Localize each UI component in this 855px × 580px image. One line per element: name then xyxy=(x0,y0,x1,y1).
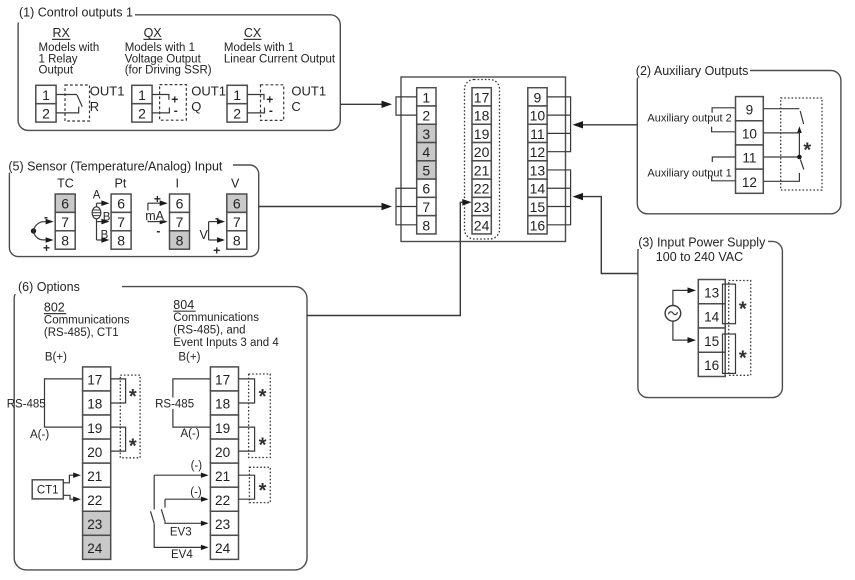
QX output wires xyxy=(152,95,169,113)
TC terminal 7 xyxy=(55,212,75,230)
svg-text:B(+): B(+) xyxy=(178,352,200,364)
802 jumper 19-20 xyxy=(111,427,126,451)
svg-text:-: - xyxy=(156,224,160,238)
svg-text:Auxiliary output 1: Auxiliary output 1 xyxy=(647,167,731,179)
svg-text:A(-): A(-) xyxy=(30,429,49,441)
svg-text:7: 7 xyxy=(422,199,430,215)
svg-text:8: 8 xyxy=(176,233,184,249)
802 jumper 17-18 xyxy=(111,379,126,403)
svg-text:21: 21 xyxy=(474,162,490,178)
svg-text:(RS-485), CT1: (RS-485), CT1 xyxy=(44,327,119,339)
power jumper bar 13-14 xyxy=(723,284,736,324)
804 terminal 20 xyxy=(210,439,238,463)
svg-text:19: 19 xyxy=(215,421,230,436)
CX dashed load box xyxy=(261,85,284,121)
RX OUT1 R label xyxy=(90,84,125,115)
svg-text:OUT1: OUT1 xyxy=(191,84,226,99)
svg-text:18: 18 xyxy=(87,397,102,412)
804 jumper 19-20 xyxy=(239,427,255,451)
svg-text:*: * xyxy=(739,348,747,370)
svg-text:20: 20 xyxy=(215,445,231,460)
I polarity and mA labels xyxy=(145,192,165,238)
svg-text:(-): (-) xyxy=(190,486,202,498)
I wiring bracket xyxy=(148,200,168,224)
aux terminal 10 xyxy=(736,121,764,145)
terminal 14 xyxy=(528,179,547,197)
svg-text:+: + xyxy=(154,192,161,206)
section 5 box xyxy=(9,165,258,257)
wire bracket terminals 9-12 (auxiliary outputs feed) xyxy=(547,97,571,152)
terminal 15 xyxy=(528,197,547,215)
terminal 4 (shaded) xyxy=(417,143,436,161)
svg-text:17: 17 xyxy=(215,373,230,388)
svg-text:14: 14 xyxy=(530,181,546,197)
svg-text:C: C xyxy=(291,99,300,114)
Pt terminal 6 xyxy=(111,194,131,212)
Pt terminal 7 xyxy=(111,212,131,230)
terminal 20 xyxy=(472,143,491,161)
aux dashed terminator box xyxy=(781,98,822,190)
804 terminal 21 xyxy=(210,463,238,487)
svg-text:22: 22 xyxy=(474,181,490,197)
svg-text:8: 8 xyxy=(233,233,241,249)
dashed option-terminal outline (17-24) xyxy=(465,80,500,240)
RX description xyxy=(39,42,100,77)
terminal 10 xyxy=(528,106,547,124)
CX polarity labels xyxy=(266,92,273,117)
802 terminal 19 xyxy=(83,415,111,439)
svg-text:QX: QX xyxy=(144,26,163,40)
svg-text:20: 20 xyxy=(87,445,103,460)
svg-text:18: 18 xyxy=(215,397,230,412)
svg-text:(5) Sensor (Temperature/Analog: (5) Sensor (Temperature/Analog) Input xyxy=(8,160,223,174)
svg-text:2: 2 xyxy=(422,108,430,124)
svg-text:6: 6 xyxy=(233,196,241,212)
svg-text:RX: RX xyxy=(53,26,71,40)
svg-text:20: 20 xyxy=(474,144,490,160)
svg-text:19: 19 xyxy=(474,126,490,142)
svg-text:1: 1 xyxy=(42,87,50,103)
svg-text:(3) Input Power Supply: (3) Input Power Supply xyxy=(638,236,766,250)
terminal 1 xyxy=(417,88,436,106)
Pt terminal 8 xyxy=(111,231,131,249)
power wire to 13 xyxy=(673,287,696,305)
804 RS-485 label xyxy=(154,398,194,411)
svg-text:Linear Current Output: Linear Current Output xyxy=(224,53,336,65)
svg-text:Event Inputs 3 and 4: Event Inputs 3 and 4 xyxy=(173,337,279,349)
804 jumper 17-18 xyxy=(239,379,255,403)
804 terminal 24 xyxy=(210,535,238,559)
svg-text:6: 6 xyxy=(61,196,69,212)
svg-text:1: 1 xyxy=(233,87,241,103)
svg-text:6: 6 xyxy=(117,196,125,212)
svg-text:7: 7 xyxy=(176,214,184,230)
svg-text:7: 7 xyxy=(61,214,69,230)
svg-text:CT1: CT1 xyxy=(37,484,59,496)
QX heading xyxy=(144,26,163,40)
svg-text:CX: CX xyxy=(244,26,262,40)
TC terminal 6 (shaded) xyxy=(55,194,75,212)
terminal 9 xyxy=(528,88,547,106)
svg-text:23: 23 xyxy=(474,199,490,215)
svg-text:I: I xyxy=(176,177,179,191)
svg-text:24: 24 xyxy=(474,217,490,233)
terminal 13 xyxy=(528,161,547,179)
V terminal 7 xyxy=(227,212,247,230)
terminal 12 xyxy=(528,143,547,161)
Pt wiring bus xyxy=(97,200,110,242)
804 terminal 19 xyxy=(210,415,238,439)
terminal 3 (shaded) xyxy=(417,124,436,142)
svg-text:*: * xyxy=(129,436,137,458)
svg-text:Models with 1: Models with 1 xyxy=(224,42,294,54)
svg-text:15: 15 xyxy=(704,334,719,349)
CX output wires xyxy=(247,95,264,113)
CX OUT1 C label xyxy=(291,84,326,115)
terminal 5 (shaded) xyxy=(417,161,436,179)
svg-text:12: 12 xyxy=(530,144,546,160)
arrow section5 to terminals 6-8 xyxy=(259,203,392,210)
svg-text:13: 13 xyxy=(530,162,546,178)
svg-text:16: 16 xyxy=(704,358,719,373)
svg-text:4: 4 xyxy=(422,144,430,160)
EV4 switch and wire into 24 xyxy=(151,475,209,550)
svg-text:8: 8 xyxy=(61,233,69,249)
svg-text:24: 24 xyxy=(215,541,231,556)
svg-text:EV3: EV3 xyxy=(170,526,192,538)
svg-text:21: 21 xyxy=(215,469,230,484)
svg-text:24: 24 xyxy=(87,541,103,556)
section 2 box xyxy=(637,71,841,214)
RX terminal 1 xyxy=(36,85,56,103)
aux terminal 12 xyxy=(736,169,764,193)
svg-text:B: B xyxy=(101,229,109,241)
Pt lead labels A B B xyxy=(93,190,111,242)
802 heading xyxy=(44,300,66,314)
804 dashed terminator box 17-20 xyxy=(249,374,271,458)
svg-text:+: + xyxy=(43,241,50,255)
svg-text:(RS-485), and: (RS-485), and xyxy=(173,325,245,337)
804 terminal 18 xyxy=(210,391,238,415)
CT1 box xyxy=(32,480,63,499)
svg-text:B(+): B(+) xyxy=(45,352,67,364)
common link 10-11 with junction dot xyxy=(763,133,801,159)
svg-text:1: 1 xyxy=(422,89,430,105)
terminal 21 xyxy=(472,161,491,179)
svg-text:R: R xyxy=(90,99,99,114)
arrow section2 to terminals 9-12 xyxy=(573,121,638,128)
svg-text:EV4: EV4 xyxy=(171,549,193,561)
power terminal 14 xyxy=(698,304,725,328)
svg-text:9: 9 xyxy=(746,102,754,117)
svg-text:*: * xyxy=(739,298,747,320)
V wiring bracket xyxy=(209,219,225,243)
804 wire into 21 xyxy=(154,473,208,478)
svg-text:22: 22 xyxy=(87,493,102,508)
connector options to terminal 23 xyxy=(307,199,472,316)
svg-text:17: 17 xyxy=(87,373,102,388)
svg-text:7: 7 xyxy=(233,214,241,230)
power terminal 13 xyxy=(698,280,725,304)
CT1 wire to 22 xyxy=(63,495,81,502)
power wire to 15 xyxy=(673,321,696,343)
I terminal 6 xyxy=(170,194,190,212)
QX terminal 2 xyxy=(132,104,152,122)
svg-text:802: 802 xyxy=(44,300,65,314)
svg-text:Communications: Communications xyxy=(44,315,130,327)
svg-text:18: 18 xyxy=(474,108,490,124)
RX terminal 2 xyxy=(36,104,56,122)
802 terminal 22 xyxy=(83,487,111,511)
svg-text:OUT1: OUT1 xyxy=(291,84,326,99)
svg-text:Models with 1: Models with 1 xyxy=(125,42,195,54)
svg-text:16: 16 xyxy=(530,217,546,233)
arrow section1 to terminals 1-2 xyxy=(340,101,392,108)
I terminal 8 (shaded) xyxy=(170,231,190,249)
svg-text:1: 1 xyxy=(138,87,146,103)
svg-text:-: - xyxy=(269,103,273,117)
svg-text:A(-): A(-) xyxy=(181,428,200,440)
power terminal 16 xyxy=(698,352,725,376)
802 terminal 20 xyxy=(83,439,111,463)
wire bracket terminals 1-2 (control output feed) xyxy=(396,97,417,115)
terminal 17 xyxy=(472,88,491,106)
power dashed terminator box xyxy=(729,281,751,376)
svg-text:12: 12 xyxy=(742,175,757,190)
wire bracket terminals 13-16 (power feed) xyxy=(547,170,571,225)
relay contact 11-12 xyxy=(763,160,804,182)
802 terminal 23 (shaded) xyxy=(83,511,111,535)
aux terminal 9 xyxy=(736,97,764,121)
804 wire into 22 xyxy=(165,497,209,502)
804 description xyxy=(173,312,279,349)
svg-text:Auxiliary output 2: Auxiliary output 2 xyxy=(647,112,731,124)
svg-text:2: 2 xyxy=(233,105,241,121)
svg-text:21: 21 xyxy=(87,469,102,484)
QX polarity labels xyxy=(171,92,178,117)
power jumper bar 15-16 xyxy=(723,334,736,373)
svg-text:+: + xyxy=(213,243,220,257)
svg-text:11: 11 xyxy=(530,126,545,142)
802 terminal 18 xyxy=(83,391,111,415)
802 description xyxy=(44,315,130,339)
804 dashed terminator box 21-22 xyxy=(249,467,270,502)
svg-text:804: 804 xyxy=(173,298,194,312)
svg-text:6: 6 xyxy=(422,181,430,197)
I terminal 7 xyxy=(170,212,190,230)
svg-text:mA: mA xyxy=(145,209,164,223)
wire bracket terminals 6-8 (sensor input feed) xyxy=(396,188,417,225)
svg-text:RS-485: RS-485 xyxy=(7,399,46,411)
804 jumper 21-22 xyxy=(239,475,255,499)
804 terminal 22 xyxy=(210,487,238,511)
svg-text:10: 10 xyxy=(742,127,758,142)
svg-text:6: 6 xyxy=(176,196,184,212)
svg-text:100 to 240 VAC: 100 to 240 VAC xyxy=(656,250,743,264)
svg-text:-: - xyxy=(174,103,178,117)
RX dashed load box xyxy=(65,85,90,121)
svg-text:Pt: Pt xyxy=(114,177,126,191)
svg-text:11: 11 xyxy=(742,151,756,166)
804 terminal 23 xyxy=(210,511,238,535)
QX OUT1 Q label xyxy=(191,84,226,115)
svg-text:1 Relay: 1 Relay xyxy=(39,53,78,65)
svg-text:(1) Control outputs 1: (1) Control outputs 1 xyxy=(19,6,133,20)
svg-text:(for Driving SSR): (for Driving SSR) xyxy=(125,65,212,77)
terminal 11 xyxy=(528,124,547,142)
svg-text:-: - xyxy=(44,210,48,224)
CX heading xyxy=(244,26,262,40)
section 1 box xyxy=(18,15,340,131)
svg-text:23: 23 xyxy=(215,517,230,532)
svg-text:10: 10 xyxy=(530,108,546,124)
svg-text:19: 19 xyxy=(87,421,102,436)
svg-text:8: 8 xyxy=(117,233,125,249)
QX description xyxy=(125,42,212,77)
V terminal 6 (shaded) xyxy=(227,194,247,212)
svg-text:2: 2 xyxy=(42,105,50,121)
svg-text:TC: TC xyxy=(57,177,74,191)
section 3 box xyxy=(638,241,783,397)
svg-text:A: A xyxy=(93,190,101,202)
terminal 7 xyxy=(417,197,436,215)
terminal 19 xyxy=(472,124,491,142)
svg-text:Models with: Models with xyxy=(39,42,100,54)
terminal 23 xyxy=(472,197,491,215)
svg-text:Output: Output xyxy=(39,65,74,77)
CX terminal 1 xyxy=(227,85,247,103)
802 terminal 17 xyxy=(83,367,111,391)
802 dashed terminator box xyxy=(120,375,140,458)
aux output 1 bracket wires xyxy=(712,157,736,181)
V polarity and V labels xyxy=(200,211,221,258)
connector section3 to terminals 13-16 xyxy=(573,193,638,274)
terminal 6 xyxy=(417,179,436,197)
TC thermocouple junction xyxy=(31,219,54,243)
802 terminal 21 xyxy=(83,463,111,487)
svg-text:V: V xyxy=(200,228,209,242)
804 heading xyxy=(173,298,195,312)
svg-text:Voltage Output: Voltage Output xyxy=(125,53,202,65)
svg-text:2: 2 xyxy=(138,105,146,121)
svg-text:8: 8 xyxy=(422,217,430,233)
AC source symbol xyxy=(665,306,681,322)
802 terminal 24 (shaded) xyxy=(83,535,111,559)
svg-text:V: V xyxy=(231,177,240,191)
RX heading xyxy=(52,26,71,40)
QX terminal 1 xyxy=(132,85,152,103)
power terminal 15 xyxy=(698,328,725,352)
CX description xyxy=(224,42,336,65)
804 RS-485 bracket wire xyxy=(173,379,211,427)
svg-text:13: 13 xyxy=(704,285,719,300)
svg-text:14: 14 xyxy=(704,310,720,325)
terminal 2 xyxy=(417,106,436,124)
svg-text:-: - xyxy=(215,211,219,225)
QX dashed load box xyxy=(160,85,187,121)
relay contact 9-10 xyxy=(763,109,803,133)
svg-text:*: * xyxy=(259,386,267,408)
804 terminal 17 xyxy=(210,367,238,391)
Pt RTD sensor symbol xyxy=(92,207,101,219)
svg-text:15: 15 xyxy=(530,199,546,215)
TC terminal 8 xyxy=(55,231,75,249)
CX terminal 2 xyxy=(227,104,247,122)
svg-text:RS-485: RS-485 xyxy=(155,399,194,411)
svg-text:*: * xyxy=(803,139,811,161)
RX relay contact symbol xyxy=(56,95,82,113)
svg-text:Communications: Communications xyxy=(173,312,259,324)
aux output 2 bracket wires xyxy=(712,108,736,132)
terminal 16 xyxy=(528,216,547,234)
svg-text:*: * xyxy=(259,435,267,457)
V terminal 8 xyxy=(227,231,247,249)
terminal 8 xyxy=(417,216,436,234)
svg-text:(-): (-) xyxy=(191,460,203,472)
svg-text:23: 23 xyxy=(87,517,102,532)
EV3 switch and wire into 23 xyxy=(161,499,208,526)
svg-text:(2) Auxiliary Outputs: (2) Auxiliary Outputs xyxy=(636,64,749,78)
svg-text:5: 5 xyxy=(422,162,430,178)
svg-text:(6) Options: (6) Options xyxy=(18,280,80,294)
terminal 24 xyxy=(472,216,491,234)
svg-text:7: 7 xyxy=(117,214,125,230)
svg-text:*: * xyxy=(259,480,267,502)
svg-text:17: 17 xyxy=(474,89,490,105)
svg-text:OUT1: OUT1 xyxy=(90,84,125,99)
svg-text:3: 3 xyxy=(422,126,430,142)
terminal 18 xyxy=(472,106,491,124)
section 6 box xyxy=(14,287,307,570)
802 RS-485 bracket wire xyxy=(45,379,83,427)
TC polarity labels xyxy=(43,210,50,255)
svg-text:Q: Q xyxy=(191,99,201,114)
terminal 22 xyxy=(472,179,491,197)
svg-text:9: 9 xyxy=(534,89,542,105)
terminal block outline xyxy=(401,77,566,242)
aux terminal 11 xyxy=(736,145,764,169)
svg-text:22: 22 xyxy=(215,493,230,508)
svg-text:B: B xyxy=(103,211,111,223)
svg-text:*: * xyxy=(129,386,137,408)
CT1 wire to 21 xyxy=(63,473,81,483)
